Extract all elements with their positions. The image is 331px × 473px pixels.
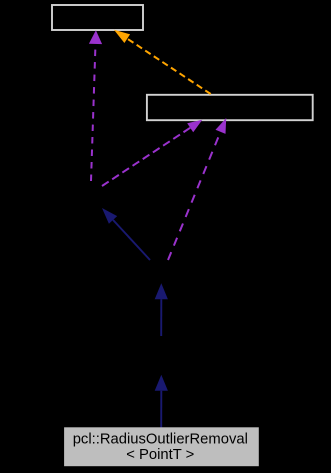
svg-text:pcl::RadiusOutlierRemoval: pcl::RadiusOutlierRemoval bbox=[73, 431, 248, 447]
svg-text:< PointT >: < PointT > bbox=[126, 447, 194, 463]
